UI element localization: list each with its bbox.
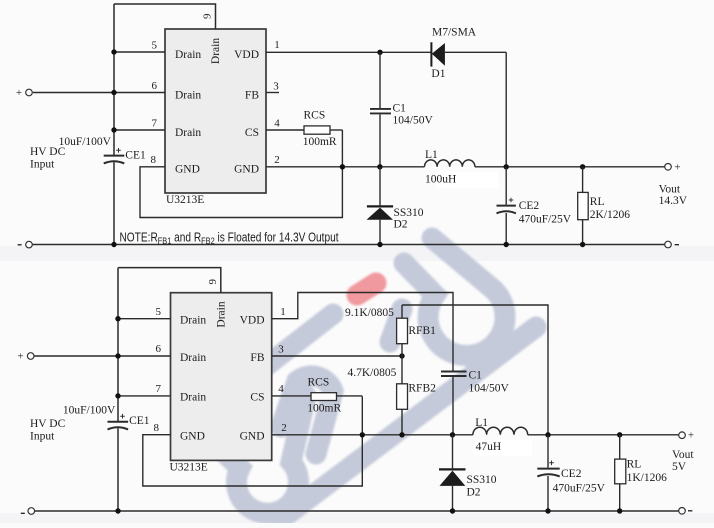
svg-text:100mR: 100mR xyxy=(307,403,341,415)
svg-text:2: 2 xyxy=(274,154,280,166)
svg-text:100uH: 100uH xyxy=(425,174,456,186)
junction rail/RL xyxy=(580,242,585,247)
wire RFB2 bottom to row xyxy=(401,409,403,435)
wire + input to pin6 (bottom) xyxy=(34,355,170,357)
resistor RFB2 4.7K/0805 xyxy=(397,384,408,410)
svg-text:GND: GND xyxy=(180,431,205,443)
wire output row right xyxy=(475,166,665,168)
terminal - input (bottom) xyxy=(28,508,35,515)
wire pin4 CS to RCS (bottom) xyxy=(272,395,311,397)
terminal - output (bottom) xyxy=(679,508,686,515)
wire pin5 to bus xyxy=(114,51,165,53)
watermark letter U (first) xyxy=(203,396,306,513)
capacitor C1 104/50V (bottom) xyxy=(441,371,467,373)
svg-text:Vout: Vout xyxy=(659,183,681,195)
wire input bus lower (bottom) xyxy=(117,428,119,511)
terminal + input (top circuit) xyxy=(26,89,33,96)
svg-text:FB: FB xyxy=(245,90,259,102)
svg-text:470uF/25V: 470uF/25V xyxy=(519,213,572,225)
svg-text:10uF/100V: 10uF/100V xyxy=(63,405,116,417)
wire pin1 VDD to D1 xyxy=(266,51,431,53)
svg-text:47uH: 47uH xyxy=(476,441,502,453)
svg-text:RCS: RCS xyxy=(304,109,326,121)
svg-text:+: + xyxy=(17,351,23,363)
wire FB pin3 to divider xyxy=(272,355,402,357)
terminal + input (bottom circuit) xyxy=(27,353,34,360)
svg-text:SS310: SS310 xyxy=(467,474,497,486)
op IC U1 U3213E (top circuit) xyxy=(165,29,266,193)
svg-text:SS310: SS310 xyxy=(394,207,424,219)
svg-text:VDD: VDD xyxy=(240,315,265,327)
svg-text:8: 8 xyxy=(151,154,157,166)
wire D1 to switch corner xyxy=(445,51,506,53)
wire pin1 VDD over to C1 (bottom) xyxy=(272,293,453,371)
svg-text:CS: CS xyxy=(250,392,264,404)
svg-text:104/50V: 104/50V xyxy=(469,383,510,395)
wire switch row to D2 xyxy=(379,167,381,206)
diode D2 SS310 (bottom) xyxy=(439,468,466,470)
svg-text:RFB1: RFB1 xyxy=(408,325,436,337)
wire pin2 GND switch row left (bottom) xyxy=(272,434,473,436)
svg-text:RL: RL xyxy=(590,196,605,208)
capacitor CE1 10uF/100V (bottom) xyxy=(108,421,129,423)
terminal + output Vout (top) xyxy=(665,164,672,171)
svg-text:Drain: Drain xyxy=(216,301,228,327)
watermark letter U (last) xyxy=(404,238,505,356)
junction row/RL (bottom) xyxy=(617,432,622,437)
wire pin8 ground loop to CS net xyxy=(140,130,342,218)
svg-text:U3213E: U3213E xyxy=(166,194,204,206)
resistor RCS 100mR (bottom) xyxy=(311,393,337,401)
svg-text:Input: Input xyxy=(30,431,55,443)
svg-text:Input: Input xyxy=(30,158,55,170)
svg-text:5: 5 xyxy=(152,39,158,51)
wire pin5 to bus (bottom) xyxy=(118,318,171,320)
svg-text:Drain: Drain xyxy=(180,392,206,404)
svg-text:HV DC: HV DC xyxy=(30,418,66,430)
svg-text:6: 6 xyxy=(152,80,158,92)
svg-text:6: 6 xyxy=(156,343,162,355)
svg-text:CE2: CE2 xyxy=(519,200,540,212)
inductor L1 47uH (bottom) xyxy=(473,427,528,435)
wire RCS to corner (bottom) xyxy=(337,395,363,397)
svg-text:5V: 5V xyxy=(672,461,687,473)
svg-text:2: 2 xyxy=(281,422,287,434)
svg-text:CE1: CE1 xyxy=(125,150,146,162)
wire down to output row xyxy=(505,52,507,167)
svg-text:Drain: Drain xyxy=(175,49,201,61)
svg-text:M7/SMA: M7/SMA xyxy=(432,27,477,39)
op IC U2 U3213E (bottom circuit) xyxy=(171,293,272,461)
svg-text:NOTE:RFB1 and RFB2 is Floated: NOTE:RFB1 and RFB2 is Floated for 14.3V … xyxy=(120,230,340,246)
svg-text:RL: RL xyxy=(627,459,642,471)
svg-text:4.7K/0805: 4.7K/0805 xyxy=(348,367,397,379)
svg-text:104/50V: 104/50V xyxy=(393,115,434,127)
svg-text:GND: GND xyxy=(240,431,265,443)
svg-text:CE2: CE2 xyxy=(561,468,582,480)
svg-text:VDD: VDD xyxy=(234,49,259,61)
wire feedback sense to output node xyxy=(402,305,548,435)
junction bus/pin6 xyxy=(111,90,116,95)
resistor RL 2K/1206 (top) xyxy=(578,192,589,219)
wire D2 anode to ground rail xyxy=(379,220,381,245)
svg-text:CS: CS xyxy=(245,127,259,139)
svg-text:D1: D1 xyxy=(431,68,445,80)
svg-text:470uF/25V: 470uF/25V xyxy=(553,483,606,495)
junction bus/pin7 (bottom) xyxy=(115,393,120,398)
junction row/pin8 loop (bottom) xyxy=(360,432,365,437)
wire CE2 to ground rail (bottom) xyxy=(547,476,549,511)
svg-text:7: 7 xyxy=(156,383,162,395)
wire RFB1 top xyxy=(401,305,403,318)
junction rail/CE2 (bottom) xyxy=(545,508,550,513)
wire RCS to corner xyxy=(330,129,342,131)
wire pin4 CS to RCS xyxy=(266,129,304,131)
capacitor CE2 470uF/25V (top) xyxy=(497,205,516,207)
svg-text:+: + xyxy=(688,430,694,442)
svg-text:5: 5 xyxy=(156,306,162,318)
wire output row to CE2 xyxy=(505,167,507,205)
wire RL to ground rail xyxy=(582,220,584,245)
svg-text:C1: C1 xyxy=(469,370,483,382)
junction row/pin8 loop xyxy=(340,164,345,169)
junction bus/pin6 (bottom) xyxy=(115,353,120,358)
terminal + output (bottom) xyxy=(679,432,686,439)
junction rail/D2 xyxy=(377,242,382,247)
svg-text:HV DC: HV DC xyxy=(30,146,66,158)
wire ground rail (bottom circuit) xyxy=(35,510,679,512)
svg-text:FB: FB xyxy=(250,352,264,364)
wire pin8 ground loop (bottom) xyxy=(143,396,362,486)
svg-text:2K/1206: 2K/1206 xyxy=(590,209,631,221)
svg-text:+: + xyxy=(16,87,22,99)
svg-text:10uF/100V: 10uF/100V xyxy=(59,136,112,148)
wire D2 to ground rail (bottom) xyxy=(452,486,454,511)
svg-text:L1: L1 xyxy=(425,149,438,161)
svg-text:RCS: RCS xyxy=(308,377,330,389)
wire RL to ground rail (bottom) xyxy=(619,484,621,511)
diode D2 SS310 (top) xyxy=(367,205,393,207)
wire input bus upper xyxy=(113,4,115,155)
capacitor CE1 10uF/100V (top) xyxy=(104,155,125,157)
junction rail/D2 (bottom) xyxy=(450,508,455,513)
resistor RCS 100mR xyxy=(304,126,330,134)
svg-text:3: 3 xyxy=(273,80,279,92)
CE1 polarity + xyxy=(116,148,121,153)
wire row to CE2 (bottom) xyxy=(547,435,549,468)
watermark letter i stem xyxy=(390,309,402,342)
wire FB pin3 stub (floating) xyxy=(266,92,279,94)
svg-text:D2: D2 xyxy=(467,486,481,498)
svg-text:14.3V: 14.3V xyxy=(659,195,688,207)
wire pin7 to bus xyxy=(114,129,165,131)
wire row to D2 (bottom) xyxy=(452,435,454,469)
label - at output xyxy=(675,244,679,246)
svg-text:CE1: CE1 xyxy=(129,415,150,427)
junction row/RL xyxy=(580,164,585,169)
junction FB/RFB1/RFB2 xyxy=(399,353,404,358)
junction rail/bus xyxy=(111,242,116,247)
label - at output (bottom) xyxy=(688,510,692,512)
junction bus/pin5 (bottom) xyxy=(115,316,120,321)
resistor RFB1 9.1K/0805 xyxy=(397,318,408,344)
wire CE2 to ground rail xyxy=(505,213,507,245)
CE2 polarity + (bottom) xyxy=(549,461,554,466)
junction row/CE2-FB (bottom) xyxy=(545,432,550,437)
wire RFB1 bottom to FB xyxy=(401,344,403,356)
CE2 polarity + xyxy=(509,198,514,203)
junction row/RFB2 xyxy=(399,432,404,437)
wire pin2 GND switch row left xyxy=(266,166,425,168)
label - at input (bottom) xyxy=(21,512,25,514)
svg-text:D2: D2 xyxy=(394,219,408,231)
svg-text:Drain: Drain xyxy=(180,315,206,327)
svg-text:4: 4 xyxy=(274,117,280,129)
svg-text:Vout: Vout xyxy=(672,449,694,461)
capacitor CE2 470uF/25V (bottom) xyxy=(537,468,559,470)
CE1 polarity + (bottom) xyxy=(120,414,125,419)
terminal - output (top) xyxy=(665,241,672,248)
junction rail/RL (bottom) xyxy=(617,508,622,513)
svg-text:9.1K/0805: 9.1K/0805 xyxy=(345,307,394,319)
svg-text:Drain: Drain xyxy=(175,127,201,139)
svg-text:100mR: 100mR xyxy=(303,136,337,148)
terminal - input (top) xyxy=(26,241,33,248)
svg-text:L1: L1 xyxy=(475,417,488,429)
svg-text:3: 3 xyxy=(278,344,284,356)
junction row/C1-D2 xyxy=(377,164,382,169)
capacitor C1 104/50V (top) xyxy=(370,108,391,110)
wire row to RL (bottom) xyxy=(619,435,621,459)
wire C1 to switch row (bottom) xyxy=(452,377,454,435)
wire + input to pin6 xyxy=(33,92,165,94)
label - at input xyxy=(18,244,22,246)
wire input bus upper (bottom) xyxy=(117,268,119,422)
watermark red i-dot xyxy=(357,283,376,295)
svg-text:4: 4 xyxy=(278,383,284,395)
junction row/C1-D2 (bottom) xyxy=(450,432,455,437)
wire C1 bottom to switch row xyxy=(379,114,381,166)
wire output row to RL xyxy=(582,167,584,193)
watermark letter n xyxy=(281,376,333,454)
wire input bus lower through CE1 xyxy=(113,162,115,244)
junction rail/bus (bottom) xyxy=(115,508,120,513)
svg-text:GND: GND xyxy=(175,164,200,176)
inductor L1 100uH (top) xyxy=(425,160,475,167)
wire ground rail (top circuit) xyxy=(32,244,664,246)
wire pin7 to bus (bottom) xyxy=(118,395,171,397)
svg-text:RFB2: RFB2 xyxy=(408,382,436,394)
svg-text:GND: GND xyxy=(234,164,259,176)
svg-text:Drain: Drain xyxy=(175,90,201,102)
wire VDD to C1 top xyxy=(379,52,381,108)
resistor RL 1K/1206 (bottom) xyxy=(615,459,626,484)
junction rail/CE2 xyxy=(504,242,509,247)
svg-text:1K/1206: 1K/1206 xyxy=(627,472,668,484)
svg-text:1: 1 xyxy=(280,306,286,318)
junction bus/pin7 xyxy=(111,127,116,132)
svg-text:Drain: Drain xyxy=(210,38,222,64)
junction bus/pin5 xyxy=(111,49,116,54)
svg-text:C1: C1 xyxy=(393,103,407,115)
diode D1 M7/SMA xyxy=(430,42,432,66)
wire pin9 to top of input bus (bottom) xyxy=(118,268,221,293)
wire FB to RFB2 top xyxy=(401,356,403,384)
junction row/CE2 xyxy=(504,164,509,169)
watermark left swoosh stroke xyxy=(194,314,333,422)
svg-text:9: 9 xyxy=(202,13,214,19)
junction VDD/C1 xyxy=(377,50,382,55)
svg-text:1: 1 xyxy=(274,39,280,51)
svg-text:9: 9 xyxy=(207,279,219,285)
watermark right swoosh stroke xyxy=(280,327,536,520)
svg-text:+: + xyxy=(674,161,680,173)
wire pin9 to top of input bus xyxy=(114,4,216,29)
wire output row right (bottom) xyxy=(528,434,679,436)
svg-text:Drain: Drain xyxy=(180,352,206,364)
svg-text:8: 8 xyxy=(154,422,160,434)
svg-text:U3213E: U3213E xyxy=(170,462,208,474)
svg-text:7: 7 xyxy=(152,117,158,129)
